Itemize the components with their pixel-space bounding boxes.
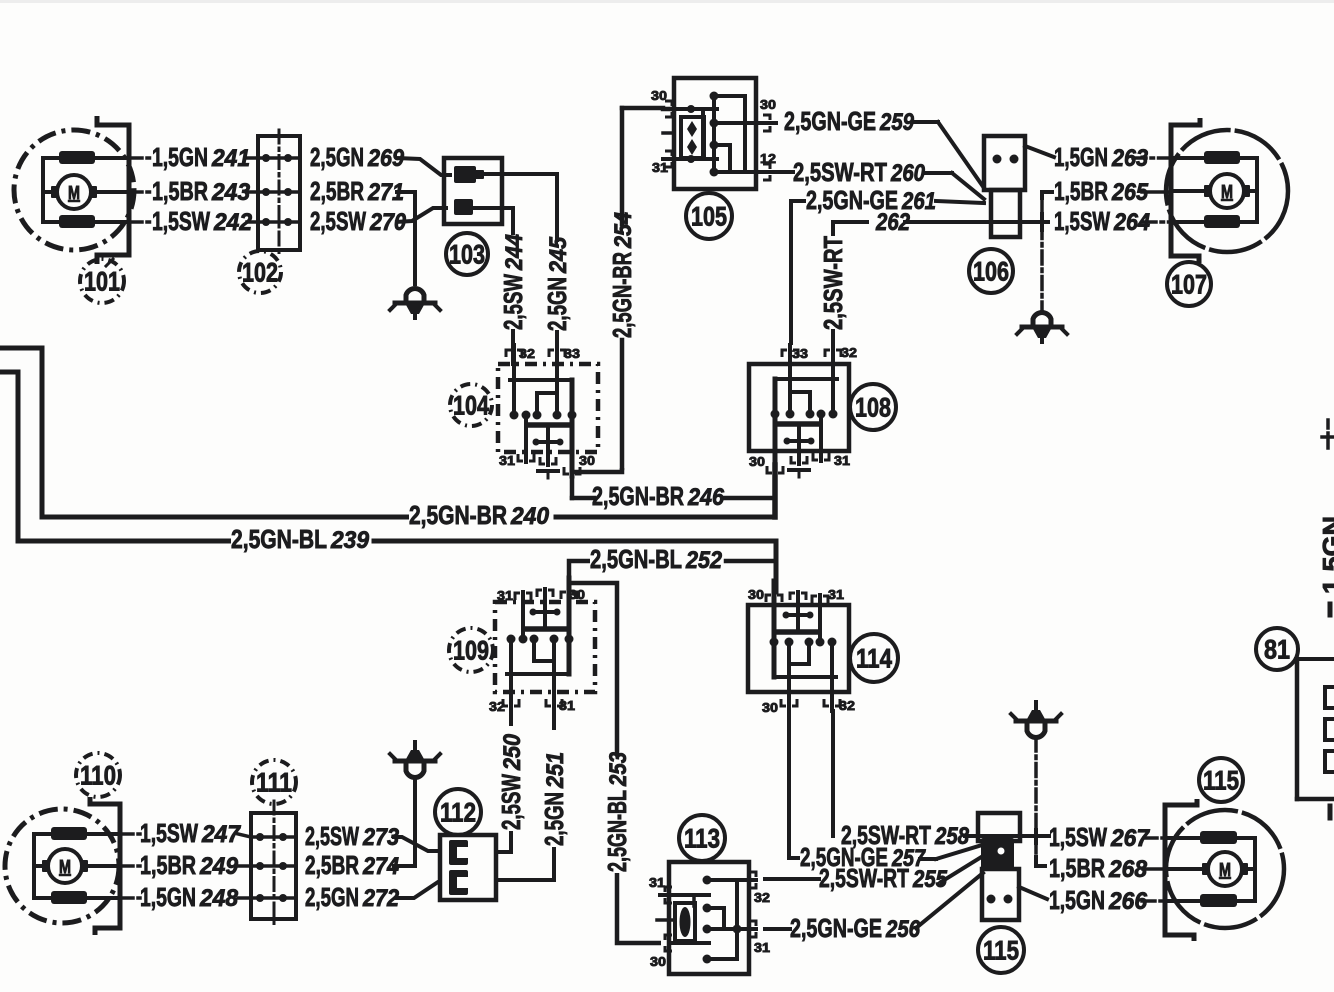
- svg-text:32: 32: [754, 890, 770, 905]
- svg-text:108: 108: [855, 393, 891, 423]
- edge marks near 81: [1328, 604, 1333, 818]
- wire 262 to 108: [833, 222, 869, 345]
- label 2,5GN 251 rotated: [539, 752, 569, 846]
- label 2,5GN-BR 246: [592, 481, 725, 511]
- svg-text:264: 264: [1113, 209, 1150, 236]
- svg-text:81: 81: [1264, 635, 1290, 665]
- wire left trunk 239: [0, 372, 776, 592]
- label 2,5GN 272: [305, 882, 400, 912]
- label 2,5GN 245 rotated: [542, 236, 572, 331]
- svg-text:2,5SW-RT: 2,5SW-RT: [819, 863, 909, 893]
- svg-text:2,5GN-BL: 2,5GN-BL: [602, 790, 632, 872]
- svg-text:1,5BR: 1,5BR: [1054, 176, 1108, 206]
- svg-text:259: 259: [879, 109, 914, 136]
- svg-text:31: 31: [652, 160, 668, 175]
- relay 108 pin numbers: [749, 345, 857, 469]
- svg-text:33: 33: [792, 346, 808, 361]
- relay 104: [498, 345, 598, 478]
- svg-text:1,5BR: 1,5BR: [140, 850, 196, 880]
- svg-text:2,5GN: 2,5GN: [539, 792, 569, 846]
- svg-text:110: 110: [80, 761, 116, 791]
- wire left trunk 240: [0, 348, 775, 517]
- connector 106: [984, 136, 1025, 237]
- connector 103: [444, 158, 502, 224]
- wire 1,5BR 249 segment: [120, 864, 251, 868]
- ground above 115: [1011, 702, 1061, 737]
- svg-text:32: 32: [519, 346, 535, 361]
- svg-text:107: 107: [1171, 270, 1207, 300]
- svg-text:2,5GN-GE: 2,5GN-GE: [790, 913, 882, 943]
- wire 1.5BR 243 segment: [129, 190, 258, 194]
- svg-text:250: 250: [499, 733, 526, 770]
- label 2,5GN-GE 259: [784, 106, 915, 136]
- svg-text:242: 242: [213, 209, 253, 236]
- svg-text:30: 30: [579, 453, 595, 468]
- svg-text:31: 31: [649, 875, 665, 890]
- wire 1,5SW 267 seg: [1144, 836, 1165, 840]
- svg-text:263: 263: [1111, 145, 1148, 172]
- relay 109 pin numbers: [489, 587, 585, 714]
- motor 101 wiper motor: [14, 116, 134, 264]
- svg-text:252: 252: [685, 547, 722, 574]
- label 108: [850, 384, 896, 430]
- relay 113: [657, 862, 756, 974]
- motor 115 wiper motor: [1165, 799, 1284, 941]
- label 2,5GN-GE 257: [800, 842, 926, 872]
- wire 2,5GN-GE 257: [789, 711, 982, 859]
- wire 1,5BR 265: [1042, 192, 1171, 200]
- svg-text:255: 255: [912, 866, 947, 893]
- label 1,5BR 249: [140, 850, 239, 880]
- wire 2,5SW 244: [471, 208, 513, 364]
- label 2,5GN-GE 256: [790, 913, 921, 943]
- svg-text:2,5BR: 2,5BR: [305, 850, 359, 880]
- svg-text:2,5SW: 2,5SW: [496, 774, 526, 830]
- svg-text:253: 253: [605, 751, 632, 786]
- svg-text:30: 30: [760, 97, 776, 112]
- svg-text:249: 249: [199, 853, 239, 880]
- wire 1,5GN 248 segment: [120, 896, 251, 900]
- label 2,5GN-BL 239: [231, 524, 370, 554]
- label 1,5GN 266: [1049, 885, 1148, 915]
- wire 2,5SW-RT 255: [765, 856, 983, 882]
- svg-text:1,5SW: 1,5SW: [1054, 206, 1110, 236]
- label 2,5SW-RT 255: [819, 863, 948, 893]
- label 107: [1167, 262, 1211, 306]
- label 262: [875, 209, 910, 236]
- wire 2,5SW-RT 258: [833, 711, 1049, 836]
- wire 1,5GN 263: [1025, 146, 1171, 158]
- label 2,5GN-BL 252: [590, 544, 723, 574]
- wire ground stem 106: [1040, 200, 1044, 310]
- motor 107 wiper motor: [1166, 118, 1288, 263]
- svg-text:1,5GN: 1,5GN: [152, 142, 208, 172]
- wire 2,5GN-GE 261: [791, 201, 984, 345]
- svg-text:2,5GN-BR: 2,5GN-BR: [592, 481, 684, 511]
- svg-text:30: 30: [650, 954, 666, 969]
- label 2,5SW-RT 260: [793, 157, 926, 187]
- svg-text:251: 251: [542, 752, 569, 789]
- svg-text:114: 114: [856, 644, 892, 674]
- svg-text:260: 260: [890, 160, 925, 187]
- wire 262 through 106: [905, 220, 1048, 224]
- svg-text:2,5GN: 2,5GN: [305, 882, 359, 912]
- connector 111: [251, 801, 296, 925]
- relay 114 pin numbers: [748, 587, 855, 715]
- wire 2.5SW 270 to 103: [395, 208, 448, 222]
- label 110: [76, 753, 120, 797]
- relay 105 pin stubs: [663, 101, 793, 180]
- svg-text:1,5BR: 1,5BR: [1049, 853, 1105, 883]
- wire 2,5GN-BL 253: [569, 583, 661, 943]
- label 1,5GN 241: [152, 142, 250, 172]
- label 1,5SW 267: [1049, 822, 1151, 852]
- scanner edge strip: [0, 0, 1334, 3]
- wire ground stem 115: [1036, 738, 1047, 866]
- svg-text:31: 31: [828, 587, 844, 602]
- svg-text:106: 106: [973, 257, 1009, 287]
- svg-text:1,5BR: 1,5BR: [152, 176, 208, 206]
- svg-text:30: 30: [651, 88, 667, 103]
- label 2,5BR 271: [310, 176, 404, 206]
- svg-text:2,5GN: 2,5GN: [310, 142, 364, 172]
- label 1,5GN 248: [140, 882, 239, 912]
- svg-text:32: 32: [489, 699, 505, 714]
- wire 1.5GN 241 segment: [129, 156, 258, 160]
- svg-text:258: 258: [934, 823, 969, 850]
- relay 114: [748, 581, 849, 711]
- label 112: [435, 789, 481, 835]
- svg-text:1,5GN: 1,5GN: [1054, 142, 1108, 172]
- edge rotated text: [1317, 516, 1334, 594]
- svg-text:2,5SW-RT: 2,5SW-RT: [841, 820, 931, 850]
- svg-text:2,5BR: 2,5BR: [310, 176, 364, 206]
- svg-text:241: 241: [211, 145, 250, 172]
- wire 2,5GN-BL 252: [569, 561, 776, 602]
- svg-text:246: 246: [687, 484, 724, 511]
- svg-text:31: 31: [754, 940, 770, 955]
- svg-text:104: 104: [453, 391, 489, 421]
- wire 2,5GN 245: [484, 174, 557, 364]
- svg-text:256: 256: [885, 916, 920, 943]
- label 106: [969, 249, 1013, 293]
- label 2,5GN 269: [310, 142, 405, 172]
- label 81: [1256, 628, 1298, 670]
- svg-text:32: 32: [841, 345, 857, 360]
- wire 2,5GN-BR 246: [572, 465, 775, 517]
- svg-text:240: 240: [510, 503, 550, 530]
- svg-text:102: 102: [242, 258, 278, 288]
- label 2,5BR 274: [305, 850, 399, 880]
- label 2,5GN-BR 254 rotated: [607, 212, 637, 338]
- svg-text:30: 30: [748, 587, 764, 602]
- relay 108: [749, 345, 849, 477]
- label 113: [679, 815, 725, 861]
- wire 1,5SW 264: [1042, 214, 1171, 230]
- svg-text:1,5GN: 1,5GN: [1317, 516, 1334, 594]
- svg-text:265: 265: [1111, 179, 1148, 206]
- relay 113 pin numbers: [649, 875, 770, 969]
- label 1,5SW 242: [152, 206, 253, 236]
- connector 102: [258, 130, 300, 256]
- component 81 box: [1296, 659, 1334, 799]
- svg-text:254: 254: [610, 212, 637, 249]
- label 101: [80, 259, 124, 303]
- label 1,5BR 268: [1049, 853, 1148, 883]
- connector 115: [978, 813, 1020, 920]
- relay 104 pin numbers: [499, 346, 595, 468]
- wire 2,5GN-GE 256: [765, 873, 983, 929]
- svg-text:2,5GN-BR: 2,5GN-BR: [409, 500, 507, 530]
- svg-text:31: 31: [497, 588, 513, 603]
- svg-text:1,5GN: 1,5GN: [140, 882, 196, 912]
- wire 2,5SW 273 to 112: [392, 837, 440, 851]
- svg-text:103: 103: [449, 240, 485, 270]
- ground below 103: [390, 289, 440, 318]
- svg-text:30: 30: [749, 454, 765, 469]
- label 1,5SW 264: [1054, 206, 1150, 236]
- wire 2,5GN-GE 259: [915, 122, 984, 188]
- wire 2,5BR 274 to ground: [392, 778, 415, 866]
- label 2,5SW 273: [305, 821, 400, 851]
- label 1,5SW 247: [140, 818, 242, 848]
- label 1,5GN 263: [1054, 142, 1149, 172]
- relay 109: [495, 578, 595, 711]
- svg-text:109: 109: [453, 636, 489, 666]
- label 2,5GN-GE 261: [806, 185, 936, 215]
- label 115 motor: [1199, 758, 1243, 802]
- svg-text:101: 101: [84, 267, 120, 297]
- label 109: [449, 628, 493, 672]
- wire 1,5BR 268 seg: [1143, 867, 1165, 871]
- label 104: [450, 384, 492, 426]
- svg-text:105: 105: [691, 202, 727, 232]
- svg-text:245: 245: [545, 236, 572, 273]
- svg-text:2,5SW: 2,5SW: [498, 274, 528, 330]
- svg-text:33: 33: [564, 346, 580, 361]
- svg-text:244: 244: [501, 234, 528, 271]
- svg-text:31: 31: [834, 453, 850, 468]
- svg-text:2,5GN-BL: 2,5GN-BL: [231, 524, 327, 554]
- wire 2,5GN 272 to 112: [394, 882, 440, 898]
- svg-text:248: 248: [199, 885, 239, 912]
- label 2,5SW 250 rotated: [496, 733, 526, 830]
- motor 110 wiper motor: [5, 797, 120, 935]
- label 115 connector: [978, 927, 1024, 973]
- connector 112: [440, 835, 496, 900]
- svg-text:243: 243: [211, 179, 251, 206]
- ground above 112: [390, 742, 440, 777]
- label 114: [850, 634, 898, 682]
- wire 1.5SW 242 segment: [129, 220, 258, 224]
- label 2,5SW 270: [310, 206, 407, 236]
- svg-text:115: 115: [1203, 766, 1239, 796]
- svg-text:31: 31: [559, 698, 575, 713]
- label 1,5BR 243: [152, 176, 251, 206]
- label 105: [686, 193, 732, 239]
- relay 105: [674, 78, 756, 189]
- label 2,5SW 244 rotated: [498, 234, 528, 330]
- svg-text:32: 32: [839, 698, 855, 713]
- label 1,5BR 265: [1054, 176, 1149, 206]
- svg-text:2,5GN: 2,5GN: [542, 277, 572, 331]
- svg-text:112: 112: [440, 798, 476, 828]
- svg-text:272: 272: [362, 885, 399, 912]
- wire 2,5GN-BR 254: [572, 108, 663, 472]
- svg-text:30: 30: [762, 700, 778, 715]
- label 2,5GN-BL 253 rotated: [602, 751, 632, 872]
- svg-text:247: 247: [201, 821, 242, 848]
- svg-text:111: 111: [256, 768, 292, 798]
- svg-text:1,5GN: 1,5GN: [1049, 885, 1105, 915]
- label 103: [446, 233, 488, 275]
- wire 2.5GN 269 to 103: [397, 158, 452, 175]
- label 2,5SW-RT 258: [841, 820, 970, 850]
- svg-text:31: 31: [499, 453, 515, 468]
- wire 1,5GN 266 seg: [1019, 887, 1165, 901]
- svg-text:2,5SW-RT: 2,5SW-RT: [818, 236, 848, 330]
- svg-text:1,5SW: 1,5SW: [1049, 822, 1107, 852]
- wire 2,5SW-RT 260: [926, 173, 984, 199]
- wire 1,5SW 247 segment: [120, 834, 251, 837]
- wire 2,5GN 251: [496, 692, 554, 880]
- svg-text:1,5SW: 1,5SW: [152, 206, 210, 236]
- svg-text:239: 239: [330, 527, 370, 554]
- svg-text:2,5SW-RT: 2,5SW-RT: [793, 157, 887, 187]
- edge dash mark top right: [1322, 420, 1334, 452]
- svg-text:115: 115: [983, 936, 1019, 966]
- svg-text:2,5GN-BL: 2,5GN-BL: [590, 544, 682, 574]
- wire 104 pin30 down: [570, 452, 575, 498]
- svg-text:12: 12: [760, 151, 776, 166]
- svg-text:2,5GN-BR: 2,5GN-BR: [607, 252, 637, 338]
- svg-text:2,5SW: 2,5SW: [305, 821, 359, 851]
- label 2,5GN-BR 240: [409, 500, 550, 530]
- wire 2,5SW 250: [496, 692, 511, 852]
- svg-text:2,5SW: 2,5SW: [310, 206, 366, 236]
- svg-text:113: 113: [684, 824, 720, 854]
- relay 105 pin numbers: [651, 88, 776, 175]
- svg-text:30: 30: [569, 587, 585, 602]
- svg-text:1,5SW: 1,5SW: [140, 818, 198, 848]
- label 111: [252, 760, 296, 804]
- ground right of 106: [1017, 313, 1067, 342]
- label 2,5SW-RT rotated: [818, 236, 848, 330]
- wire 2,5BR 271 to ground: [395, 192, 415, 286]
- svg-text:2,5GN-GE: 2,5GN-GE: [784, 106, 876, 136]
- label 102: [239, 251, 281, 293]
